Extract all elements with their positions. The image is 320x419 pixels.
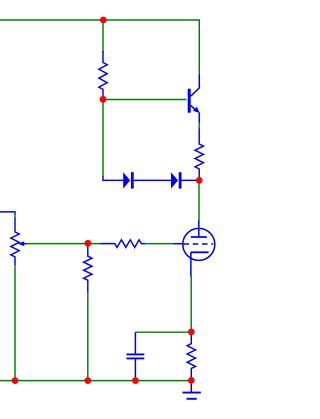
wire R3 to tube grid [145, 243, 173, 245]
node F junction dot [12, 377, 19, 384]
wire capacitor bottom to rail [134, 377, 136, 381]
node H junction dot [132, 377, 139, 384]
wire R4 to ground rail [87, 292, 89, 380]
resistor R5 [187, 332, 195, 380]
wire node E to capacitor top [135, 331, 191, 333]
wire bottom ground rail [0, 380, 191, 382]
wire from node A down to resistor R1 [102, 20, 104, 53]
wire from node C down to tube plate [198, 180, 200, 221]
capacitor C1 [127, 332, 145, 377]
wire pot bottom to ground rail [14, 265, 16, 381]
resistor R1 [99, 51, 107, 99]
node D junction dot [85, 240, 92, 247]
resistor R2 [195, 129, 203, 181]
wire from node B down to diode row [102, 100, 104, 177]
wire emitter stub [198, 123, 200, 129]
potentiometer P1 body [11, 218, 28, 265]
diode D2 [171, 172, 199, 188]
resistor R4 below node D [84, 244, 92, 292]
node A junction dot [100, 17, 107, 24]
wire pot top stub [14, 214, 16, 218]
resistor R3 (horizontal) [101, 240, 146, 248]
node C junction dot [196, 177, 203, 184]
node I junction dot [188, 377, 195, 384]
wire base: node B to transistor base [103, 99, 187, 101]
potentiometer P1 top lead from left edge [0, 212, 15, 215]
transistor Q1 [188, 75, 200, 123]
wire top rail from left edge to right corner, down to collector [0, 20, 199, 75]
ground symbol [183, 381, 201, 399]
wire cathode down to node E [190, 276, 192, 332]
node G junction dot [84, 377, 91, 384]
node E junction dot [188, 329, 195, 336]
diode D1 [103, 172, 171, 188]
wire wiper to node D and on to resistor R3 [26, 243, 101, 245]
tube V1 (triode) [173, 221, 215, 277]
node B junction dot [100, 96, 107, 103]
